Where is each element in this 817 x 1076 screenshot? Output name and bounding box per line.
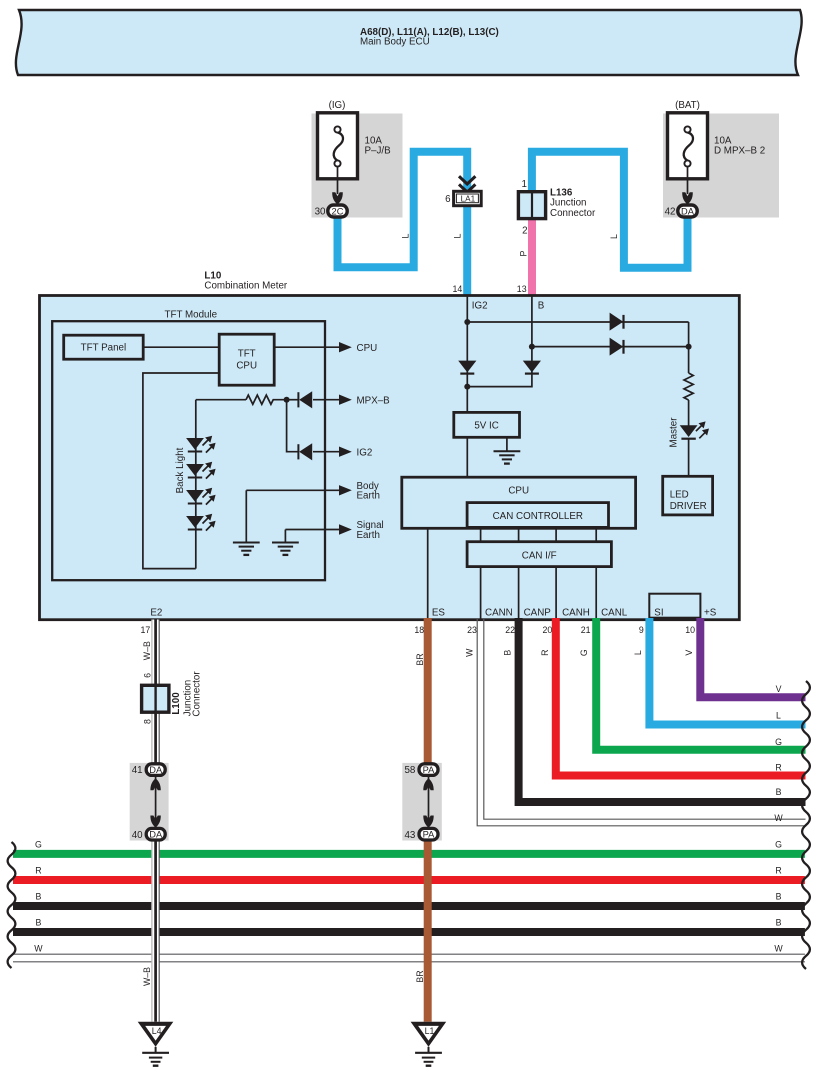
wire L pin13 (blue, from fuse DA via L136): [532, 152, 688, 268]
svg-text:DA: DA: [681, 206, 695, 216]
connector DA pair gray box: [130, 763, 169, 841]
svg-text:B: B: [776, 892, 782, 902]
diode IG2 down: [458, 361, 476, 374]
back light LED 2: [186, 462, 216, 479]
svg-text:Main Body ECU: Main Body ECU: [360, 37, 430, 48]
wire L pin14 (blue, from fuse 2C via LA1 to pin 14): [338, 152, 468, 296]
TFT panel box: [64, 335, 144, 359]
master LED branch vertical: [688, 322, 690, 373]
svg-text:TFT Module: TFT Module: [165, 310, 218, 321]
svg-text:G: G: [35, 839, 42, 849]
LED DRIVER box: [663, 476, 713, 515]
svg-text:58: 58: [404, 765, 415, 776]
Main Body ECU banner: [16, 10, 802, 75]
svg-text:G: G: [579, 649, 589, 656]
arrow Body Earth: [339, 485, 352, 495]
wire P (pink, L136 pin2 to pin 13): [528, 219, 536, 296]
CAN I/F box: [467, 542, 611, 567]
wire L (pin 9, blue): [649, 618, 805, 725]
svg-text:D MPX–B 2: D MPX–B 2: [714, 146, 765, 157]
svg-text:14: 14: [453, 284, 463, 294]
svg-text:8: 8: [143, 719, 153, 724]
diode B down: [523, 361, 541, 374]
svg-text:L: L: [633, 650, 643, 655]
ground L1: [411, 1022, 447, 1066]
svg-text:W–B: W–B: [142, 967, 152, 986]
svg-text:L1: L1: [425, 1026, 435, 1036]
svg-text:Earth: Earth: [357, 530, 380, 541]
diode IG2 (TFT): [298, 443, 339, 460]
5V IC box: [454, 412, 520, 437]
svg-text:Connector: Connector: [550, 208, 596, 219]
connector oval 2C pin30: [315, 205, 348, 217]
node IG2: [464, 319, 470, 325]
wire 5V IC to CPU: [466, 437, 468, 477]
wire CANP: [518, 567, 520, 620]
TFT CPU box: [219, 334, 274, 385]
wire W-B lower segment: [152, 841, 159, 1022]
PA link arrows: [423, 776, 433, 828]
ground (5V IC): [494, 451, 521, 463]
connector oval DA pin42: [665, 205, 698, 217]
wire W-B (pin 17, white/black) upper segment: [152, 620, 159, 763]
wire V (pin 10, violet): [700, 618, 805, 697]
bus wire R: [13, 876, 805, 884]
stubs CAN controller to CAN I/F: [481, 527, 597, 541]
node 5V: [464, 384, 470, 390]
back light LED 1: [186, 436, 216, 453]
svg-text:B: B: [538, 300, 545, 311]
svg-text:MPX–B: MPX–B: [357, 395, 391, 406]
svg-text:V: V: [776, 684, 782, 694]
svg-text:L: L: [452, 233, 462, 238]
svg-text:(IG): (IG): [329, 100, 346, 111]
wire B node to master LED branch: [532, 346, 689, 348]
svg-text:L: L: [776, 711, 781, 721]
arrow CPU: [339, 342, 352, 352]
junction connector L136: [518, 179, 596, 236]
svg-text:CANL: CANL: [601, 607, 628, 618]
arrow MPX-B: [339, 395, 352, 405]
svg-text:CAN I/F: CAN I/F: [522, 550, 557, 561]
svg-text:10: 10: [685, 625, 695, 635]
SI box: [649, 594, 700, 618]
bus wire G: [13, 850, 805, 858]
svg-text:6: 6: [445, 194, 451, 205]
junction connector L100: [142, 671, 203, 724]
svg-text:DA: DA: [149, 765, 163, 775]
svg-text:V: V: [684, 650, 694, 656]
wire LED to LED driver: [688, 439, 690, 477]
svg-text:L4: L4: [152, 1026, 162, 1036]
svg-text:PA: PA: [423, 830, 436, 840]
wire BR lower segment: [424, 838, 432, 1022]
connector oval PA pin43: [404, 828, 438, 840]
svg-text:CAN CONTROLLER: CAN CONTROLLER: [493, 511, 583, 522]
wire BR (pin 18, brown) upper segment: [424, 618, 432, 766]
wire W (pin 23, white with outlines): [477, 618, 805, 826]
svg-text:18: 18: [414, 625, 424, 635]
svg-text:LED: LED: [670, 489, 689, 500]
svg-text:21: 21: [581, 625, 591, 635]
ground (signal earth): [272, 543, 299, 555]
svg-text:R: R: [35, 866, 41, 876]
svg-text:20: 20: [543, 625, 553, 635]
svg-text:B: B: [35, 892, 41, 902]
svg-text:Master: Master: [669, 417, 680, 448]
svg-text:17: 17: [141, 625, 151, 635]
svg-text:G: G: [775, 839, 782, 849]
LED master: [680, 421, 709, 438]
TFT module box: [52, 310, 325, 581]
B feed wire inside meter: [467, 296, 532, 387]
svg-text:B: B: [776, 918, 782, 928]
svg-text:(BAT): (BAT): [675, 100, 700, 111]
fuse block gray box (IG): [312, 114, 403, 218]
svg-text:30: 30: [315, 206, 326, 217]
svg-text:B: B: [502, 650, 512, 656]
svg-text:6: 6: [143, 673, 153, 678]
svg-text:Earth: Earth: [357, 491, 380, 502]
wire CANL: [595, 567, 597, 620]
svg-text:L100: L100: [171, 692, 182, 715]
svg-text:LA1: LA1: [461, 195, 476, 204]
svg-text:ES: ES: [432, 607, 446, 618]
svg-text:BR: BR: [415, 970, 425, 982]
svg-text:22: 22: [505, 625, 515, 635]
wire CANH: [555, 567, 557, 620]
connector LA1 pin6: [445, 176, 481, 205]
wire node to IG2 diode: [287, 400, 299, 452]
bus wire B (1): [13, 902, 805, 910]
svg-text:CPU: CPU: [236, 360, 257, 371]
diode (IG2 to master): [610, 313, 624, 331]
svg-text:CPU: CPU: [357, 343, 378, 354]
svg-text:W: W: [774, 813, 783, 823]
IG2 feed wire inside meter: [466, 296, 468, 413]
svg-text:G: G: [775, 737, 782, 747]
arrow IG2: [339, 447, 352, 457]
ground L4: [138, 1022, 174, 1066]
bus wire W: [13, 954, 805, 962]
svg-text:E2: E2: [150, 607, 162, 618]
svg-text:DA: DA: [149, 830, 163, 840]
svg-text:SI: SI: [654, 607, 663, 618]
ground (body earth): [233, 543, 260, 555]
svg-text:Connector: Connector: [192, 671, 203, 717]
wire node to MPX-B diode: [287, 399, 299, 401]
svg-text:R: R: [775, 866, 781, 876]
wire IG2 node to master LED branch: [467, 321, 688, 323]
back light LED chain wire: [195, 400, 197, 569]
svg-text:L: L: [609, 234, 619, 239]
back light LED 3: [186, 488, 216, 505]
svg-text:23: 23: [467, 625, 477, 635]
svg-text:1: 1: [522, 179, 527, 190]
wire TFT CPU to CPU arrow: [274, 346, 339, 348]
diode (B to master): [610, 338, 624, 356]
resistor (backlight feed): [246, 395, 287, 404]
ground stem (5V IC): [506, 437, 508, 451]
wavy break edge right: [802, 681, 810, 969]
DA link arrows: [150, 776, 160, 828]
wire R (pin 20, red): [556, 618, 806, 776]
svg-text:TFT: TFT: [238, 348, 256, 359]
svg-text:L: L: [400, 233, 410, 238]
svg-text:CANN: CANN: [485, 607, 513, 618]
svg-text:2: 2: [522, 225, 527, 236]
wavy break edge left: [8, 842, 16, 968]
resistor (master LED): [684, 373, 693, 400]
connector oval PA pin58: [404, 764, 438, 776]
svg-text:TFT Panel: TFT Panel: [81, 343, 127, 354]
svg-text:W: W: [774, 944, 783, 954]
node master branch: [686, 344, 692, 350]
wire B (pin 22, black): [519, 618, 806, 802]
bus wire B (2): [13, 928, 805, 936]
svg-text:+S: +S: [704, 607, 717, 618]
svg-text:40: 40: [132, 830, 143, 841]
svg-text:R: R: [775, 762, 781, 772]
svg-text:41: 41: [132, 765, 143, 776]
wire TFT panel to TFT CPU: [143, 346, 219, 348]
wire CANN: [480, 567, 482, 620]
wire G (pin 21, green): [596, 618, 805, 750]
node B: [529, 344, 535, 350]
wire TFT CPU feedback loop: [143, 373, 219, 569]
CPU box: [402, 477, 636, 528]
svg-text:5V IC: 5V IC: [474, 421, 499, 432]
svg-text:W: W: [464, 648, 474, 657]
svg-text:Combination Meter: Combination Meter: [204, 281, 288, 292]
fuse block gray box (BAT): [663, 114, 779, 218]
svg-text:9: 9: [639, 625, 644, 635]
back light LED 4: [186, 514, 216, 531]
connector PA pair gray box: [402, 763, 442, 841]
svg-text:CPU: CPU: [508, 486, 529, 497]
arrow Signal Earth: [339, 524, 352, 534]
svg-text:PA: PA: [423, 765, 436, 775]
svg-text:13: 13: [517, 284, 527, 294]
svg-text:DRIVER: DRIVER: [670, 501, 707, 512]
fuse 10A P-J/B (IG): [318, 100, 392, 205]
svg-text:CANP: CANP: [524, 607, 552, 618]
svg-text:2C: 2C: [332, 206, 344, 216]
wire to resistor: [196, 399, 246, 401]
svg-text:BR: BR: [415, 653, 425, 665]
wire signal earth: [285, 529, 339, 531]
svg-text:B: B: [35, 918, 41, 928]
svg-text:CANH: CANH: [562, 607, 590, 618]
svg-text:P–J/B: P–J/B: [365, 146, 392, 157]
svg-text:W: W: [34, 944, 43, 954]
node at resistor output: [284, 397, 290, 403]
svg-text:P: P: [519, 250, 529, 256]
svg-text:W–B: W–B: [142, 641, 152, 660]
svg-text:B: B: [776, 787, 782, 797]
connector oval DA pin40: [132, 828, 166, 840]
svg-text:42: 42: [665, 206, 676, 217]
svg-text:IG2: IG2: [357, 447, 373, 458]
svg-text:R: R: [540, 650, 550, 656]
wire body earth: [246, 489, 339, 491]
svg-text:Back Light: Back Light: [175, 447, 186, 493]
svg-text:IG2: IG2: [472, 300, 488, 311]
CAN CONTROLLER box: [467, 503, 608, 528]
connector oval DA pin41: [132, 764, 166, 776]
combination meter box L10: [40, 271, 740, 620]
svg-text:43: 43: [404, 830, 415, 841]
fuse 10A D MPX-B 2 (BAT): [668, 100, 766, 205]
diode MPX-B: [298, 391, 339, 408]
wire ES: [427, 528, 429, 619]
